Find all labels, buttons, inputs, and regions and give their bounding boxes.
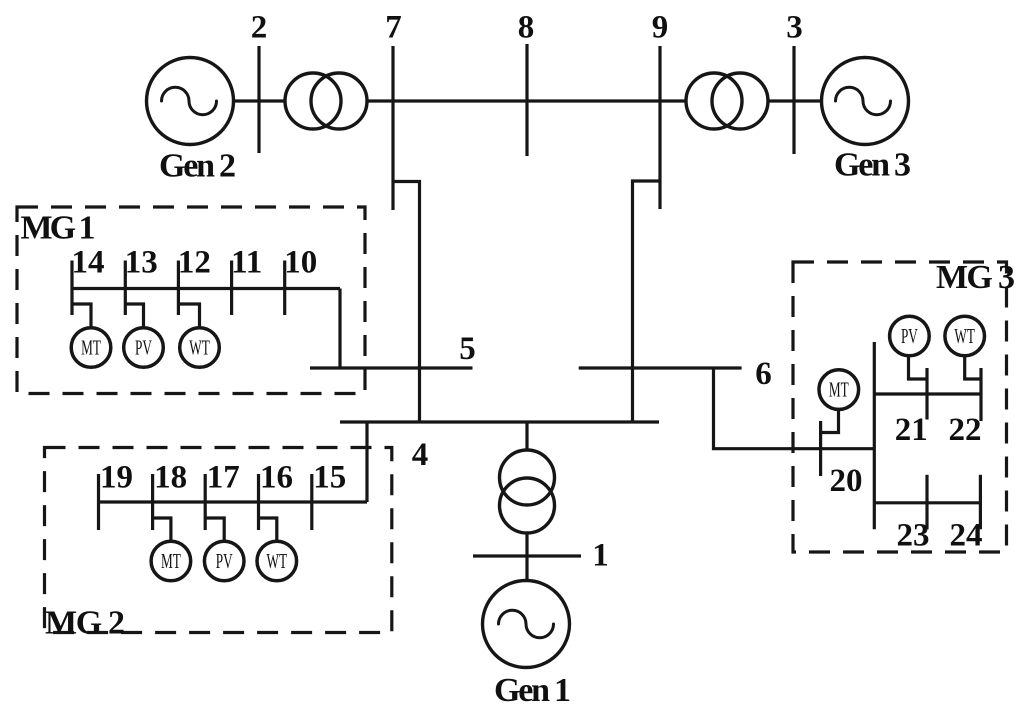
- svg-text:9: 9: [652, 10, 669, 46]
- svg-text:5: 5: [459, 331, 476, 367]
- svg-text:WT: WT: [954, 324, 975, 348]
- bus 14: [70, 261, 73, 316]
- bus 2: [257, 46, 260, 153]
- svg-text:19: 19: [100, 460, 133, 496]
- bus 20: [819, 421, 822, 476]
- svg-text:MT: MT: [161, 549, 181, 573]
- MG 3 lower feeder line buses 23-24: [874, 501, 980, 504]
- wire MG 1 riser to bus 5: [338, 289, 341, 369]
- svg-text:MT: MT: [81, 335, 101, 359]
- bus 6: [579, 366, 742, 369]
- svg-text:22: 22: [949, 412, 982, 448]
- wire bus 18 to MT unit: [153, 518, 171, 542]
- wire top main bus7-8-9 tie line: [233, 99, 822, 102]
- PV unit circle MG1: [124, 328, 164, 368]
- bus 5: [310, 366, 473, 369]
- svg-text:MG 1: MG 1: [21, 210, 96, 247]
- wire jog from bus 7 down to bus 4: [393, 182, 420, 423]
- svg-text:3: 3: [786, 10, 803, 46]
- svg-text:23: 23: [897, 518, 930, 554]
- bus 19: [97, 474, 100, 530]
- transformer T1 winding fills: [500, 450, 555, 533]
- svg-text:Gen 3: Gen 3: [834, 147, 911, 184]
- bus 11: [230, 261, 233, 316]
- PV unit circle MG3: [890, 316, 930, 356]
- MG 3 dashed boundary box: [793, 262, 1007, 552]
- transformer T3 winding fills: [686, 73, 768, 129]
- MT unit circle MG3: [819, 370, 859, 410]
- bus 4: [340, 420, 659, 423]
- svg-text:6: 6: [755, 356, 772, 392]
- bus 10: [283, 261, 286, 316]
- MG 2 feeder bus line: [99, 500, 368, 503]
- bus 23: [925, 475, 928, 530]
- PV unit circle MG2: [204, 541, 244, 581]
- transformer T2 winding outlines: [285, 73, 367, 129]
- svg-text:20: 20: [830, 463, 863, 499]
- svg-text:MG 3: MG 3: [936, 259, 1015, 296]
- wire bus 12 to WT unit: [178, 304, 199, 328]
- bus 17: [204, 474, 207, 530]
- generator Gen 3 circle: [822, 58, 909, 145]
- wire bus 17 to PV unit: [205, 518, 224, 542]
- svg-text:17: 17: [207, 460, 240, 496]
- bus 8: [525, 44, 528, 156]
- bus 15: [310, 474, 313, 530]
- svg-text:21: 21: [895, 412, 928, 448]
- WT unit circle MG3: [945, 316, 985, 356]
- bus 18: [151, 474, 154, 530]
- bus 1: [473, 554, 581, 557]
- generator Gen 3 sine symbol: [836, 87, 891, 115]
- MT unit circle MG2: [151, 541, 191, 581]
- bus 9: [658, 46, 661, 209]
- svg-text:10: 10: [284, 245, 317, 281]
- svg-text:WT: WT: [267, 549, 288, 573]
- generator Gen 2 circle: [147, 58, 234, 145]
- bus 3: [792, 46, 795, 154]
- wire from bus 6 down into MG 3: [714, 368, 875, 449]
- wire bus 14 to MT unit: [72, 304, 91, 328]
- MG 1 dashed boundary box: [17, 207, 365, 394]
- svg-text:15: 15: [313, 460, 346, 496]
- bus 22: [979, 368, 982, 421]
- svg-text:WT: WT: [189, 335, 210, 359]
- bus 16: [257, 474, 260, 530]
- MG 2 dashed boundary box: [45, 448, 392, 633]
- generator Gen 2 sine symbol: [162, 87, 217, 115]
- wire bus 13 to PV unit: [125, 304, 143, 328]
- svg-text:PV: PV: [901, 324, 918, 348]
- MG 1 feeder bus line: [72, 287, 340, 290]
- transformer T3 winding outlines: [686, 73, 768, 129]
- MG 3 spine bus line: [873, 342, 876, 529]
- wire from bus 4 down to Gen 1: [525, 422, 528, 581]
- wire bus 16 to WT unit: [259, 518, 277, 542]
- svg-text:13: 13: [125, 245, 158, 281]
- WT unit circle MG1: [180, 328, 220, 368]
- svg-text:24: 24: [950, 518, 983, 554]
- svg-text:18: 18: [154, 460, 187, 496]
- WT unit circle MG2: [257, 541, 297, 581]
- bus 13: [124, 261, 127, 316]
- svg-text:PV: PV: [135, 335, 152, 359]
- wire bus 21 to PV unit: [909, 356, 928, 379]
- transformer T1 winding outlines: [500, 450, 555, 533]
- svg-text:16: 16: [260, 460, 293, 496]
- svg-text:4: 4: [412, 437, 429, 473]
- svg-text:MT: MT: [829, 377, 849, 401]
- svg-text:12: 12: [178, 245, 211, 281]
- bus 24: [979, 475, 982, 530]
- bus 12: [177, 261, 180, 316]
- bus 7: [391, 46, 394, 210]
- svg-text:11: 11: [231, 245, 262, 281]
- svg-text:14: 14: [72, 245, 105, 281]
- wire bus 22 to WT unit: [965, 356, 981, 379]
- generator Gen 1 sine symbol: [499, 610, 554, 638]
- svg-text:PV: PV: [216, 549, 233, 573]
- svg-text:2: 2: [251, 10, 268, 46]
- svg-text:Gen 1: Gen 1: [494, 672, 571, 709]
- bus 21: [925, 368, 928, 420]
- wire jog from bus 9 down to bus 4: [633, 181, 661, 422]
- svg-text:1: 1: [592, 538, 609, 574]
- svg-text:8: 8: [518, 10, 535, 46]
- wire bus 20 to MT unit: [821, 409, 839, 432]
- svg-text:7: 7: [385, 10, 402, 46]
- wire MG 2 riser to bus 4: [365, 422, 368, 502]
- svg-text:MG 2: MG 2: [45, 605, 125, 642]
- generator Gen 1 circle: [483, 581, 570, 668]
- svg-text:Gen 2: Gen 2: [159, 148, 236, 185]
- MG 3 upper feeder line buses 21-22: [874, 392, 981, 395]
- MT unit circle MG1: [71, 328, 111, 368]
- transformer T2 winding fills: [285, 73, 367, 129]
